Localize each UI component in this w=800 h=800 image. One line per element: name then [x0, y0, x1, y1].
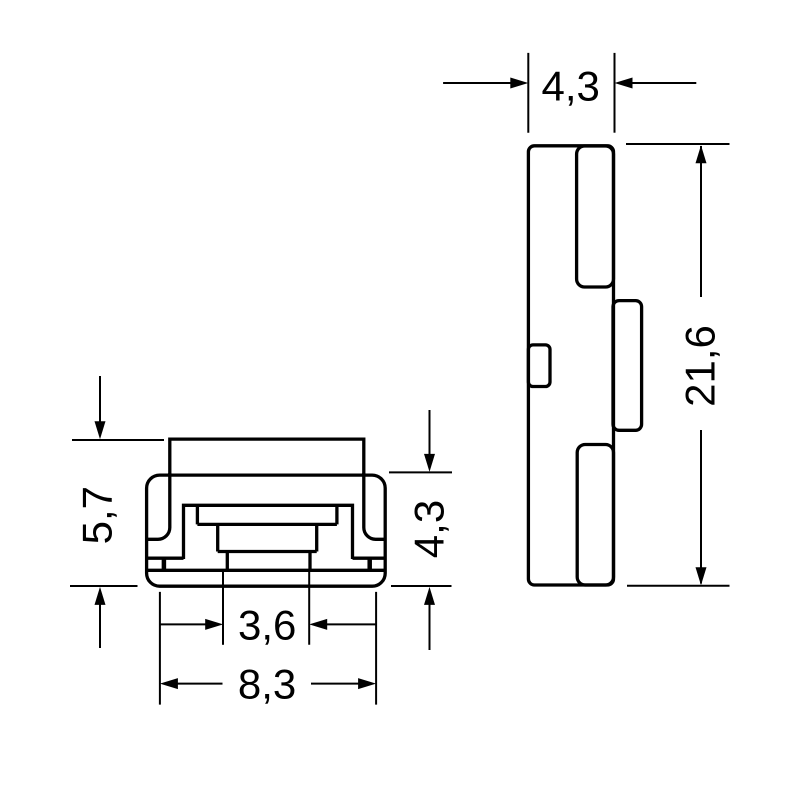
front shelf line A left [147, 557, 184, 560]
ext line 3,6 inner right [308, 571, 310, 645]
svg-text:21,6: 21,6 [677, 325, 724, 407]
front step level2 [218, 524, 317, 551]
dim 3,6 right shaft [325, 623, 376, 625]
front view top cap [170, 439, 364, 476]
arrowhead 5,7 top [95, 421, 106, 439]
front step level1 [197, 505, 337, 524]
arrowhead 8,3 right [358, 678, 376, 689]
svg-text:4,3: 4,3 [405, 500, 452, 558]
dim 8,3 left shaft [175, 683, 223, 685]
ext line side top left [527, 53, 529, 133]
ext line 3,6 inner left [222, 571, 224, 645]
side view body [528, 146, 613, 585]
dim 8,3 right shaft [311, 683, 360, 685]
arrowhead 21,6 top [696, 145, 707, 163]
svg-text:8,3: 8,3 [238, 660, 296, 707]
dim 4,3 side right shaft [631, 82, 696, 84]
front inner right contour [364, 473, 385, 539]
svg-text:4,3: 4,3 [542, 62, 600, 109]
dim 21,6 line bottom seg [700, 430, 702, 584]
ext line 21,6 top [626, 143, 730, 145]
front pin left [162, 558, 167, 569]
ext line 5,7 top [72, 439, 164, 441]
dim 21,6 line top seg [700, 146, 702, 297]
front step level3 [227, 552, 310, 571]
front pin right [367, 558, 372, 569]
dim 3,6 left shaft [160, 623, 207, 625]
dim 5,7 bottom shaft [99, 603, 101, 648]
dim 4,3 side left shaft [443, 82, 512, 84]
arrowhead 8,3 left [160, 678, 178, 689]
side top inner block [577, 146, 614, 287]
side right tab [613, 301, 642, 431]
front shelf line A right [353, 557, 386, 560]
ext line 5,7 bottom [70, 585, 138, 587]
arrowhead 4,3 front top [424, 454, 435, 472]
dim 4,3 front bottom shaft [429, 603, 431, 650]
front inner left contour [147, 473, 170, 539]
side bottom inner block [577, 445, 613, 586]
arrowhead 4,3 side left [510, 78, 528, 89]
arrowhead 3,6 right [309, 619, 327, 630]
front inner frame [184, 505, 353, 559]
arrowhead 3,6 left [205, 619, 223, 630]
arrowhead 5,7 bottom [95, 587, 106, 605]
svg-text:3,6: 3,6 [238, 602, 296, 649]
ext line 4,3 front bottom [391, 585, 452, 587]
svg-text:5,7: 5,7 [74, 486, 121, 544]
front base line B [147, 569, 386, 572]
ext line 8,3 outer right [375, 592, 377, 705]
arrowhead 4,3 side right [615, 78, 633, 89]
side left notch [528, 345, 550, 387]
ext line 4,3 front top [389, 471, 452, 473]
ext line 21,6 bottom [627, 585, 730, 587]
ext line side top right [614, 53, 616, 133]
arrowhead 21,6 bottom [696, 567, 707, 585]
dim 5,7 top shaft [99, 376, 101, 423]
arrowhead 4,3 front bottom [424, 587, 435, 605]
dim 4,3 front top shaft [429, 410, 431, 456]
front view body [147, 475, 386, 586]
ext line 8,3 outer left [159, 592, 161, 705]
